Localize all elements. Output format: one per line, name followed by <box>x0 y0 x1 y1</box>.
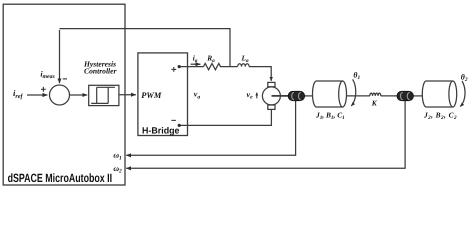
node + terminal dot <box>178 65 181 68</box>
relay hysteresis symbol inside U1 <box>91 87 115 103</box>
label plus at summing input (drawn) <box>41 87 46 92</box>
inertia cylinder J2 body <box>422 81 452 107</box>
svg-text:J2, B2, C2: J2, B2, C2 <box>423 110 457 121</box>
wire omega1 speed feedback from coupling1 <box>126 101 295 156</box>
svg-text:J1, B1, C1: J1, B1, C1 <box>315 110 345 121</box>
wire i_meas feedback drop into summing junction <box>59 30 61 83</box>
svg-text:H-Bridge: H-Bridge <box>142 126 180 136</box>
rotation arrow theta2 <box>460 81 465 107</box>
svg-text:PWM: PWM <box>141 91 162 100</box>
svg-text:Controller: Controller <box>84 67 118 76</box>
inertia cylinder J1 right face <box>339 81 347 107</box>
wire inductor to motor + terminal <box>249 67 271 81</box>
summing junction S1 <box>50 85 70 105</box>
inductor La <box>238 64 249 67</box>
wire i_ref input <box>27 94 47 96</box>
torsion spring K <box>370 93 381 96</box>
node - terminal dot <box>178 124 181 127</box>
svg-text:dSPACE MicroAutobox II: dSPACE MicroAutobox II <box>8 171 113 185</box>
coupling C2 between spring and J2 <box>397 91 413 100</box>
block H-Bridge <box>138 53 188 136</box>
label minus at summing top (drawn) <box>63 78 67 80</box>
inertia cylinder J2 right face <box>449 81 457 107</box>
inertia cylinder J1 body <box>313 81 343 107</box>
motor M armature circle <box>262 87 280 105</box>
motor M top brush <box>268 82 275 86</box>
wire coupling2 to J2 <box>413 95 422 97</box>
wire hysteresis controller output to PWM input <box>119 94 136 96</box>
coupling C1 between motor and J1 <box>288 91 304 100</box>
wire omega2 speed feedback from coupling2 <box>126 101 405 169</box>
wire spring K to coupling2 <box>381 95 397 97</box>
wire shaft coupling1 to J1 <box>304 95 313 97</box>
label minus H-bridge terminal (drawn) <box>171 119 176 121</box>
label plus H-bridge terminal (drawn) <box>171 67 176 72</box>
wire shaft J1 to spring K <box>347 95 370 97</box>
dSPACE MicroAutobox II enclosure box <box>3 4 125 185</box>
block hysteresis controller U1 <box>89 85 119 105</box>
wire feedback from armature tap node to i_meas line <box>60 29 231 66</box>
resistor Ra <box>204 63 238 69</box>
rotation arrow theta1 <box>351 79 355 106</box>
motor M bottom brush <box>268 105 275 109</box>
wire H-bridge + terminal to resistor Ra <box>179 66 203 68</box>
wire summing junction to hysteresis controller <box>70 94 88 96</box>
arrow current ia <box>191 63 201 65</box>
wire motor shaft <box>272 95 289 97</box>
wire motor - terminal back to H-bridge - terminal <box>179 109 271 125</box>
arrow back-emf ve <box>256 93 258 99</box>
